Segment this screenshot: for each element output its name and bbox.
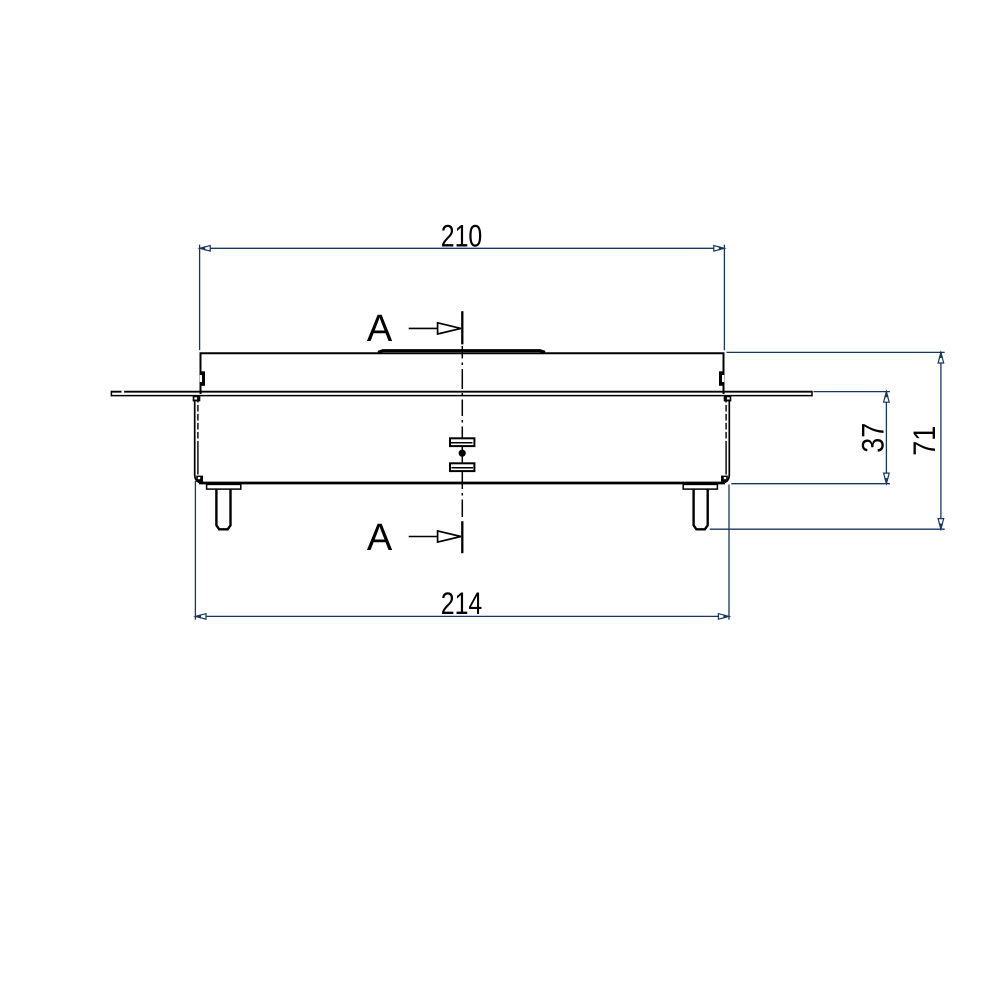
svg-text:A: A: [367, 308, 393, 350]
svg-text:214: 214: [441, 585, 483, 621]
svg-text:210: 210: [441, 217, 483, 253]
svg-text:71: 71: [906, 426, 942, 456]
svg-text:A: A: [367, 517, 393, 559]
svg-text:37: 37: [855, 423, 891, 453]
